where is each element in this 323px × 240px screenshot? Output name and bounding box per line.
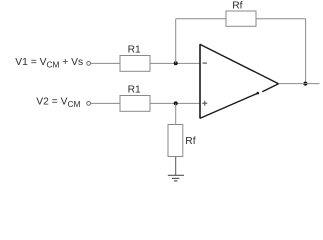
- pin - (inverting): [203, 62, 208, 64]
- node junction A (feedback tap): [174, 61, 178, 65]
- ground: [168, 175, 184, 181]
- svg-text:Rf: Rf: [232, 1, 242, 12]
- wire junction B to Rf: [175, 103, 177, 124]
- svg-text:Rf: Rf: [185, 136, 195, 147]
- resistor R1 (bottom): [120, 96, 150, 112]
- resistor Rf (feedback): [226, 11, 256, 26]
- wire R1 to op-amp inverting input: [150, 62, 200, 64]
- svg-text:V1 = VCM + Vs: V1 = VCM + Vs: [15, 57, 83, 70]
- wire Rf to ground: [175, 157, 177, 176]
- terminal V1: [87, 62, 91, 66]
- wire feedback top left: [176, 18, 226, 20]
- terminal V2: [87, 102, 91, 106]
- wire output: [279, 83, 320, 85]
- node junction output: [303, 82, 307, 86]
- op-amp U1: [200, 44, 279, 118]
- svg-text:R1: R1: [128, 85, 141, 96]
- wire V1 terminal to R1: [91, 62, 120, 64]
- svg-text:R1: R1: [128, 45, 141, 56]
- svg-text:V2 = VCM: V2 = VCM: [36, 97, 80, 110]
- wire feedback top right: [256, 18, 306, 20]
- wire feedback left vertical: [175, 19, 177, 64]
- resistor R1 (top): [120, 56, 150, 72]
- wire feedback right vertical: [305, 19, 307, 84]
- wire V2 terminal to R1: [91, 102, 120, 104]
- wire R1 to op-amp non-inverting input: [150, 102, 200, 104]
- pin + (non-inverting): [202, 101, 207, 106]
- node junction B (Rf tap): [174, 101, 178, 105]
- resistor Rf (to ground): [168, 125, 183, 157]
